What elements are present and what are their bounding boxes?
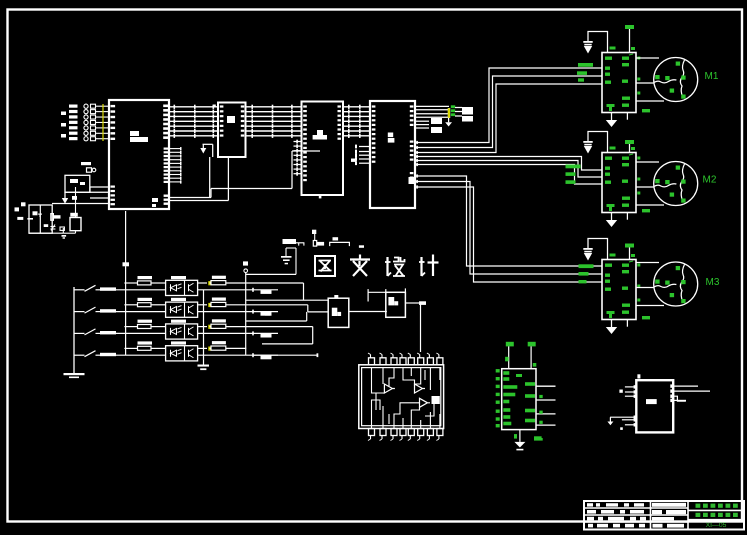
chip U4 xyxy=(370,101,415,208)
motor M3 xyxy=(706,277,720,288)
yellow bus line xyxy=(102,104,104,141)
wire bus U3 to U4 xyxy=(343,105,370,138)
motor driver A3 xyxy=(583,239,697,335)
blocks right of U4 xyxy=(415,118,442,133)
wire bus U1 to U2 xyxy=(169,105,218,138)
earth ground xyxy=(246,248,296,274)
pin ticks U4 right xyxy=(416,141,418,189)
signal labels A3 xyxy=(579,264,594,283)
misc parts mid xyxy=(283,230,365,248)
parts left-mid xyxy=(81,162,96,172)
motor driver A1 xyxy=(583,25,697,127)
microcontroller U1 xyxy=(109,100,182,209)
opto output rail + extensions xyxy=(204,283,319,365)
input net labels left of U1 xyxy=(61,104,109,141)
bus VCC left xyxy=(123,211,130,355)
wire U2 bottom, ground xyxy=(200,144,228,200)
switch bus + ground xyxy=(64,287,85,378)
signal labels A1 xyxy=(577,63,593,82)
transistor Q1 xyxy=(328,295,349,327)
title block green text xyxy=(696,504,738,530)
wire Q1-Q2 xyxy=(349,311,387,313)
wires opto to Q1 xyxy=(246,283,328,344)
chip U3 xyxy=(294,102,344,199)
wire bus U2 to U3 xyxy=(246,105,302,138)
motor M1 xyxy=(705,71,719,82)
reset block C xyxy=(65,175,90,192)
connector J2 right of U4 xyxy=(415,105,473,126)
motor driver A2 xyxy=(583,132,697,228)
optocoupler rows K1-K4 xyxy=(74,276,278,361)
svg-text:XI—05: XI—05 xyxy=(706,522,727,529)
crystal Y1 xyxy=(63,187,81,233)
wires to U1 left-lower pins xyxy=(52,187,109,204)
svg-text:M3: M3 xyxy=(706,277,720,288)
chip U2 xyxy=(213,103,246,158)
opto ground mid xyxy=(198,365,210,371)
watermark text xyxy=(315,255,439,277)
logic IC U9 xyxy=(359,353,444,441)
chip U11 xyxy=(607,374,710,432)
wire group U3-U4 lower xyxy=(351,145,370,166)
oscillator block D xyxy=(27,205,66,239)
transistor Q2 xyxy=(368,288,426,352)
wires U1-right to mid xyxy=(169,151,320,201)
wire bundle U4 to driver A3 xyxy=(415,176,602,282)
title block grid xyxy=(584,501,744,530)
signal labels A2 xyxy=(566,165,581,184)
motor M2 xyxy=(703,175,717,186)
driver chip U10 with green labels xyxy=(496,342,556,451)
pullup bus xyxy=(243,261,248,355)
svg-text:M2: M2 xyxy=(703,175,717,186)
junction squares far-left xyxy=(15,202,26,220)
yellow tick J2 xyxy=(448,108,450,118)
wire bundle U4 to driver A2 xyxy=(415,157,602,185)
wire bundle U4 to driver A1 xyxy=(415,68,602,153)
svg-text:M1: M1 xyxy=(705,71,719,82)
